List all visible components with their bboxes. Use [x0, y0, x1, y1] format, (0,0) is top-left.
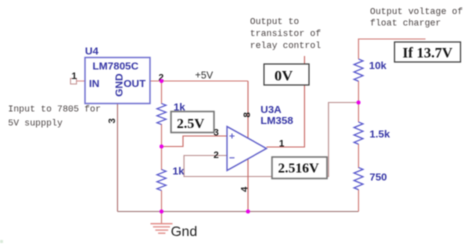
wire ground stub below rail [161, 212, 163, 224]
svg-text:IN: IN [89, 78, 100, 90]
svg-text:5V suppply: 5V suppply [8, 118, 63, 129]
wire left column node A to lower 1k [161, 147, 163, 171]
svg-text:8: 8 [242, 112, 253, 117]
svg-text:1: 1 [279, 139, 285, 150]
svg-text:Output voltage of: Output voltage of [370, 6, 463, 17]
svg-text:LM7805C: LM7805C [93, 61, 140, 73]
op-amp U3A triangle [227, 127, 267, 171]
probe box 2.5V [171, 112, 214, 133]
op-amp + input mark [230, 134, 235, 139]
wire op-amp pin 8 supply drop [247, 81, 249, 138]
svg-text:relay control: relay control [250, 40, 321, 51]
probe box 0V [264, 64, 309, 85]
pin marker square on regulator input [71, 79, 77, 85]
svg-text:transistor of: transistor of [250, 28, 321, 39]
resistor R lower 1k (left column) [157, 170, 166, 191]
junction node on ground rail at pin 4 [246, 210, 250, 214]
wire 10k to node B [358, 81, 360, 103]
svg-text:Gnd: Gnd [171, 223, 197, 239]
svg-text:+5V: +5V [195, 71, 213, 82]
wire op-amp pin 2 feedback loop to divider node B [184, 103, 359, 177]
svg-text:OUT: OUT [124, 78, 147, 90]
regulator U4 LM7805C body [85, 58, 150, 104]
junction node B on divider [357, 101, 361, 105]
svg-text:Input to 7805 for: Input to 7805 for [8, 104, 101, 115]
resistor R upper 1k (left column) [157, 104, 166, 125]
svg-text:0V: 0V [274, 69, 293, 85]
resistor 10k (right column) [354, 59, 363, 81]
svg-text:1k: 1k [173, 166, 185, 178]
wire node B to 1.5k [358, 103, 360, 123]
wire bottom ground rail [118, 211, 359, 213]
resistor 1.5k (right column) [354, 122, 363, 144]
wire 1.5k to 750 [358, 144, 360, 168]
junction node A between 1k resistors [160, 145, 164, 149]
op-amp - input mark [230, 157, 235, 159]
wire op-amp output pin 1 up to 0V probe [267, 56, 305, 147]
wire op-amp pin 4 down to ground rail [247, 159, 249, 212]
svg-text:U4: U4 [85, 46, 99, 58]
svg-text:1.5k: 1.5k [370, 129, 391, 141]
wire node A to op-amp pin 3 [162, 136, 228, 147]
wire right column top with stub to If 13.7V probe [359, 39, 426, 59]
wire lower 1k to ground rail [161, 191, 163, 212]
svg-text:2: 2 [214, 150, 219, 161]
wire regulator pin 1 stub [77, 80, 85, 82]
svg-text:4: 4 [240, 186, 251, 192]
svg-text:3: 3 [107, 118, 118, 123]
svg-text:Output to: Output to [250, 16, 299, 27]
resistor 750 (right column) [354, 168, 363, 190]
wire regulator GND pin down to ground rail [117, 104, 119, 212]
svg-text:750: 750 [370, 172, 388, 184]
svg-text:2.516V: 2.516V [278, 161, 319, 176]
probe box If 13.7V [395, 42, 461, 62]
svg-text:10k: 10k [369, 60, 387, 72]
corner artifact [0, 240, 3, 243]
junction node on ground rail below 1k [160, 210, 164, 214]
svg-text:If 13.7V: If 13.7V [403, 46, 453, 62]
wire +5V rail from regulator OUT to op-amp pin 8 [150, 80, 248, 82]
wire left divider column upper segment [161, 81, 163, 104]
svg-text:2.5V: 2.5V [177, 117, 205, 132]
ground symbol [151, 224, 173, 234]
svg-text:1: 1 [72, 71, 78, 82]
svg-text:float charger: float charger [370, 18, 441, 29]
wire left column between R top and node A [161, 124, 163, 147]
svg-text:LM358: LM358 [261, 115, 294, 127]
junction node at +5V rail [160, 79, 164, 83]
probe box 2.516V [272, 157, 327, 179]
wire 750 down to ground rail [358, 190, 360, 212]
